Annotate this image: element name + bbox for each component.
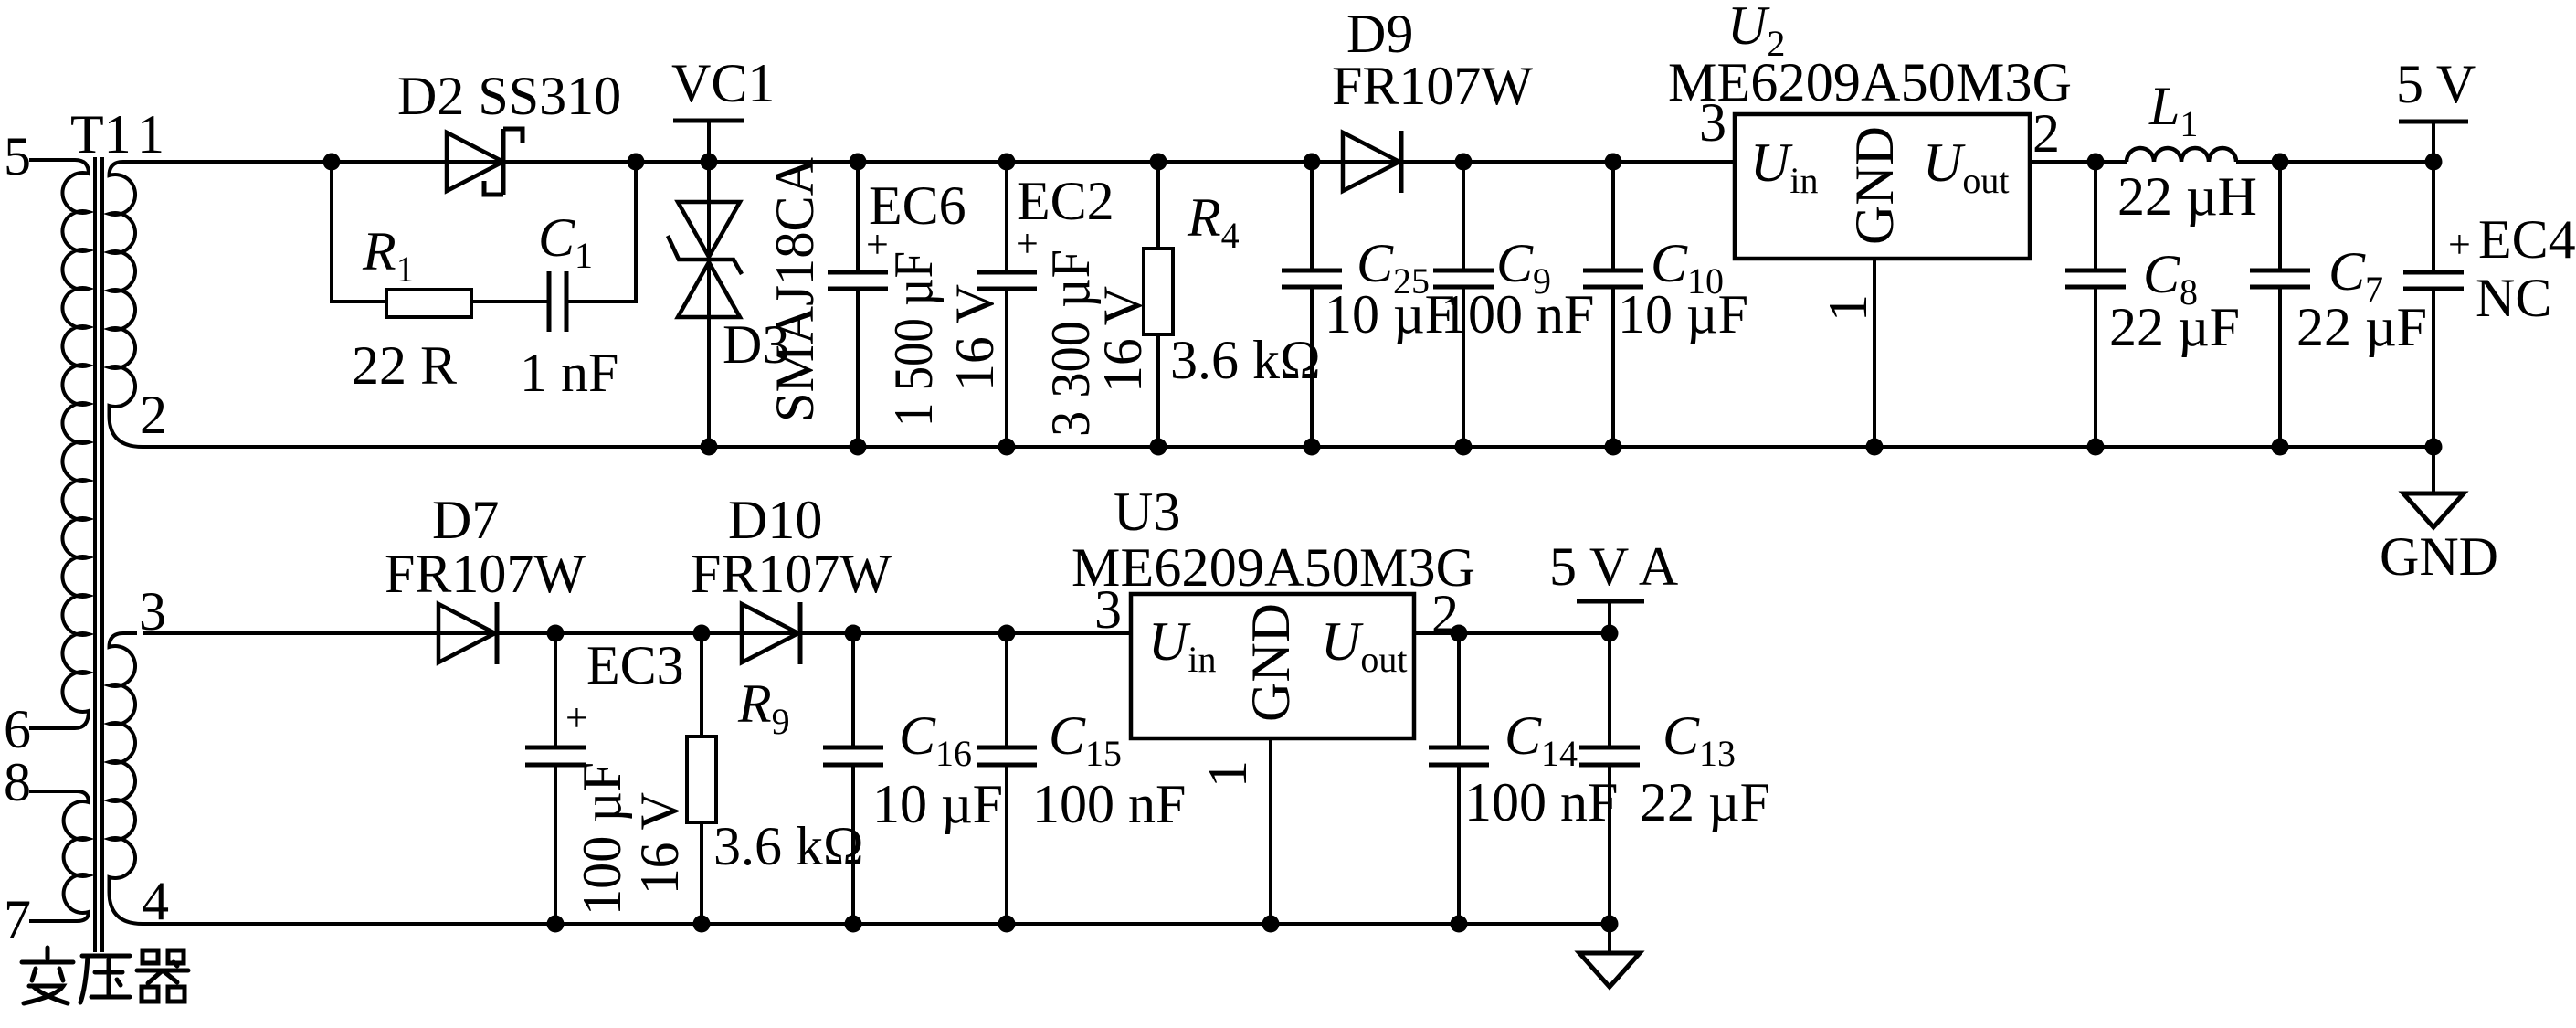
node B junction xyxy=(628,154,645,171)
wire U3 output net xyxy=(1414,631,1610,635)
capacitor EC3 xyxy=(525,625,586,933)
svg-text:+: + xyxy=(565,695,588,740)
resistor R4 xyxy=(1144,154,1173,456)
svg-text:D7: D7 xyxy=(432,490,499,550)
diode D2 (Schottky SS310) xyxy=(447,129,523,195)
svg-text:10 µF: 10 µF xyxy=(1325,284,1455,344)
label bianyaqi (transformer, Chinese) xyxy=(22,948,188,1003)
svg-text:3.6 kΩ: 3.6 kΩ xyxy=(1170,330,1321,390)
svg-text:NC: NC xyxy=(2476,268,2551,328)
T1 secondary winding 3-4 xyxy=(110,633,143,924)
svg-text:EC3: EC3 xyxy=(586,635,684,695)
svg-text:2: 2 xyxy=(1431,584,1459,644)
ground (top) xyxy=(2403,447,2464,527)
node A junction xyxy=(323,154,341,171)
resistor R1 xyxy=(332,162,549,317)
capacitor C10 xyxy=(1583,154,1643,456)
capacitor C16 xyxy=(823,625,883,933)
svg-text:100 nF: 100 nF xyxy=(1464,772,1618,832)
svg-text:5 V A: 5 V A xyxy=(1549,536,1678,597)
capacitor EC6 xyxy=(828,154,888,456)
connector 5V xyxy=(2399,122,2468,162)
connector 5VA xyxy=(1577,601,1644,633)
capacitor C1 xyxy=(549,162,636,332)
svg-text:U3: U3 xyxy=(1114,482,1180,542)
wire top rail net 1 xyxy=(137,160,2433,164)
connector VC1 xyxy=(673,121,744,162)
svg-text:FR107W: FR107W xyxy=(1332,56,1533,116)
svg-text:16 V: 16 V xyxy=(1093,286,1153,393)
svg-text:100 nF: 100 nF xyxy=(1441,284,1594,344)
svg-text:GND: GND xyxy=(1844,126,1905,245)
diode D9 FR107W xyxy=(1343,131,1401,193)
svg-text:22 µH: 22 µH xyxy=(2117,166,2257,227)
svg-text:6: 6 xyxy=(4,699,31,759)
svg-text:T1: T1 xyxy=(70,104,132,164)
svg-text:16 V: 16 V xyxy=(629,792,690,895)
svg-text:FR107W: FR107W xyxy=(385,544,586,604)
resistor R9 xyxy=(687,625,716,933)
svg-text:FR107W: FR107W xyxy=(691,544,892,604)
svg-text:1: 1 xyxy=(137,104,164,164)
svg-text:16 V: 16 V xyxy=(945,284,1005,391)
svg-text:22 µF: 22 µF xyxy=(2109,297,2240,357)
diode D10 FR107W xyxy=(742,602,800,664)
svg-text:ME6209A50M3G: ME6209A50M3G xyxy=(1668,52,2072,112)
svg-text:22 µF: 22 µF xyxy=(1640,772,1770,832)
regulator U2 ME6209A50M3G box xyxy=(1735,114,2030,456)
svg-text:2: 2 xyxy=(2032,103,2060,164)
svg-text:4: 4 xyxy=(142,871,169,931)
capacitor C14 xyxy=(1429,625,1489,933)
diode D7 FR107W xyxy=(438,602,497,664)
svg-text:10 µF: 10 µF xyxy=(1618,284,1748,344)
svg-text:2: 2 xyxy=(140,385,167,445)
wire rail net 3 xyxy=(143,631,1131,635)
capacitor C9 xyxy=(1433,154,1494,456)
svg-text:100 nF: 100 nF xyxy=(1032,774,1186,834)
svg-text:GND: GND xyxy=(1240,603,1301,722)
capacitor C15 xyxy=(977,625,1037,933)
svg-text:22 µF: 22 µF xyxy=(2296,297,2427,357)
svg-text:D2 SS310: D2 SS310 xyxy=(397,66,621,126)
capacitor EC4 xyxy=(2403,154,2464,456)
T1 auxiliary winding 8-7 xyxy=(29,791,89,921)
svg-text:100 µF: 100 µF xyxy=(572,762,632,916)
svg-text:3.6 kΩ: 3.6 kΩ xyxy=(713,816,864,876)
TVS diode D3 SMAJ18CA xyxy=(668,154,742,456)
svg-text:10 µF: 10 µF xyxy=(872,774,1003,834)
svg-text:1 nF: 1 nF xyxy=(520,343,618,403)
wire rail net 2 (0V top section) xyxy=(143,445,2433,449)
capacitor EC2 xyxy=(977,154,1037,456)
svg-text:1: 1 xyxy=(1198,760,1258,788)
capacitor C7 xyxy=(2250,154,2310,456)
svg-text:8: 8 xyxy=(4,752,31,812)
capacitor C8 xyxy=(2065,154,2126,456)
capacitor C13 xyxy=(1579,625,1640,933)
svg-text:SMAJ18CA: SMAJ18CA xyxy=(765,157,825,422)
svg-text:1: 1 xyxy=(1818,294,1878,322)
svg-text:3: 3 xyxy=(1094,579,1122,640)
svg-text:1 500 µF: 1 500 µF xyxy=(883,251,944,427)
svg-text:7: 7 xyxy=(4,889,31,949)
T1 secondary winding 1-2 xyxy=(110,162,143,447)
svg-text:22 R: 22 R xyxy=(352,335,457,396)
inductor L1 xyxy=(2127,148,2236,162)
wire rail net 4 (0V bottom section) xyxy=(143,922,1610,926)
svg-text:5: 5 xyxy=(4,126,31,186)
capacitor C25 xyxy=(1282,154,1342,456)
svg-text:3: 3 xyxy=(139,581,166,641)
svg-text:+: + xyxy=(2448,222,2471,267)
svg-text:5 V: 5 V xyxy=(2396,54,2476,114)
svg-text:D10: D10 xyxy=(728,490,822,550)
svg-text:3: 3 xyxy=(1699,92,1726,153)
svg-text:+: + xyxy=(1016,221,1039,266)
T1 primary winding 5-6 xyxy=(29,160,89,728)
svg-text:ME6209A50M3G: ME6209A50M3G xyxy=(1072,537,1475,598)
transformer T1 core xyxy=(95,157,102,952)
ground (bottom) xyxy=(1579,924,1640,987)
svg-text:VC1: VC1 xyxy=(671,53,775,113)
svg-text:GND: GND xyxy=(2380,526,2498,587)
svg-text:EC4: EC4 xyxy=(2478,209,2576,270)
regulator U3 ME6209A50M3G box xyxy=(1131,594,1414,933)
